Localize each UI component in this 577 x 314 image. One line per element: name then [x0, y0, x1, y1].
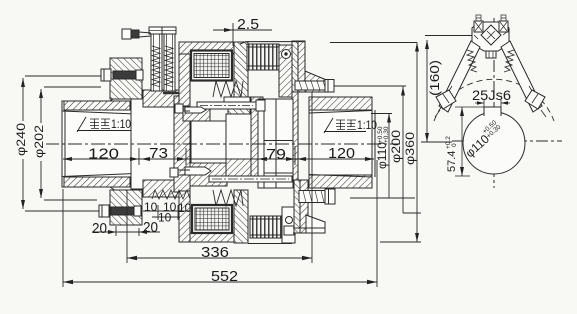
svg-text:57.4: 57.4	[446, 151, 458, 172]
magnet housing bottom band	[179, 191, 248, 242]
dim phi360 right	[330, 43, 421, 243]
lever arm right	[501, 41, 546, 117]
adjusting rod top	[197, 100, 265, 111]
bore circle	[463, 112, 525, 174]
chain dim line 120 73 79 120	[63, 146, 374, 165]
stud bolt left	[149, 27, 163, 91]
block bolt right	[499, 21, 508, 32]
svg-text:10: 10	[158, 211, 172, 225]
svg-text:φ240: φ240	[14, 123, 28, 156]
dim phi200 right	[334, 86, 421, 213]
label phi202 rotated	[35, 123, 46, 161]
grease fitting	[122, 29, 151, 39]
left hub tapered bore	[62, 111, 135, 177]
friction disc pack bottom	[250, 216, 282, 238]
clamp bolt lower right	[299, 189, 335, 204]
dim 552	[63, 160, 377, 287]
friction disc pack top	[247, 44, 279, 70]
svg-text:(160): (160)	[427, 60, 442, 96]
keyway dim 25Js6 lines	[475, 100, 510, 107]
dim 57.4	[455, 107, 484, 176]
svg-text:336: 336	[201, 244, 229, 261]
clamp bolt upper right	[295, 80, 334, 93]
left hub body	[62, 101, 139, 187]
dim phi202	[39, 87, 101, 200]
armature plate bottom	[143, 180, 190, 197]
dim 336	[127, 92, 312, 263]
label phi240 rotated	[17, 121, 28, 159]
outer diameter phantom arc	[434, 79, 554, 121]
small set bolt near flange	[175, 104, 190, 113]
left hub collar step	[110, 90, 139, 101]
guide pin top	[185, 107, 206, 113]
collar clamp block top	[101, 58, 143, 99]
label phi110 tol rotated	[377, 126, 390, 169]
pressure plate top	[279, 45, 292, 97]
spacer sleeve 73 section	[131, 99, 174, 189]
block bolt left	[474, 21, 483, 32]
dim 20 20	[92, 226, 160, 236]
housing outer contour bottom	[248, 243, 292, 245]
coil lead wire	[163, 93, 189, 104]
svg-text:25Js6: 25Js6	[472, 87, 511, 103]
brake flange disc	[174, 96, 190, 192]
spacer bar above rod	[224, 97, 250, 102]
dim 2.5 gap	[213, 23, 272, 46]
inner hatch column	[251, 97, 263, 176]
right hub tapered bore	[309, 111, 372, 178]
svg-text:1:10: 1:10	[111, 117, 131, 131]
housing chevron column top	[234, 42, 248, 97]
svg-text:552: 552	[211, 268, 238, 285]
stud bolt right	[162, 27, 176, 91]
long tie rod bottom	[209, 176, 292, 182]
lever spring left	[467, 50, 477, 72]
svg-text:20: 20	[143, 219, 158, 236]
lever arm left	[435, 41, 480, 117]
dim (160)	[421, 36, 473, 143]
collar clamp block bottom	[99, 190, 142, 225]
svg-text:120: 120	[328, 145, 355, 162]
lever spring right	[504, 50, 514, 72]
svg-text:10: 10	[178, 201, 192, 215]
housing chevron column bottom	[234, 190, 248, 243]
coil bottom	[192, 205, 232, 233]
upper inner hatch	[183, 109, 210, 121]
pivot diamond	[481, 25, 501, 45]
dim phi110 right	[350, 114, 415, 199]
svg-text:10: 10	[144, 200, 158, 214]
keyway slot	[484, 107, 501, 116]
right hub body	[309, 97, 375, 188]
inner lower step hatch	[226, 159, 252, 176]
svg-text:120: 120	[88, 146, 119, 163]
labels 10 chain	[144, 200, 192, 225]
taper label right (zhui du 1:10)	[324, 118, 366, 133]
dim phi240	[21, 76, 101, 211]
end view horizontal centerline	[452, 140, 562, 142]
svg-text:1:10: 1:10	[357, 118, 377, 132]
lever pivot block	[472, 15, 509, 58]
svg-text:φ110: φ110	[377, 142, 389, 169]
pressure plate bottom	[282, 207, 295, 243]
inner pole piece white	[191, 121, 227, 163]
magnet housing top band	[179, 42, 248, 107]
output flange plate	[292, 41, 329, 180]
dim 10 chain	[143, 200, 191, 220]
svg-text:φ200: φ200	[389, 130, 403, 163]
svg-text:φ202: φ202	[32, 125, 46, 158]
small set bolt near flange bottom	[170, 168, 190, 177]
label 57.4 tol rotated	[445, 136, 458, 172]
main centerline	[45, 143, 400, 145]
output flange plate bottom	[293, 180, 325, 233]
coil top	[191, 51, 232, 81]
lower inner hatch	[190, 163, 227, 186]
release spring bottom	[213, 190, 243, 206]
svg-text:79: 79	[266, 146, 286, 163]
end view vertical centerline	[493, 18, 495, 188]
inner step block	[226, 114, 253, 159]
svg-text:73: 73	[149, 145, 168, 162]
block lower tab	[486, 51, 496, 58]
main centerline overlay	[45, 143, 400, 145]
label phi110 in circle rotated diagonal	[461, 119, 504, 160]
svg-text:20: 20	[92, 220, 107, 237]
svg-text:0: 0	[451, 143, 458, 147]
spline hub chevron block	[228, 109, 250, 121]
release spring top	[213, 81, 243, 97]
svg-text:2.5: 2.5	[237, 16, 259, 33]
guide pin bottom	[185, 167, 211, 175]
armature plate top	[143, 90, 190, 107]
svg-text:φ360: φ360	[403, 132, 417, 165]
housing outer contour top	[240, 42, 305, 44]
bottom release springs row	[152, 190, 190, 199]
taper label left (zhui du 1:10)	[77, 117, 131, 132]
inner sleeve right white	[258, 99, 293, 188]
